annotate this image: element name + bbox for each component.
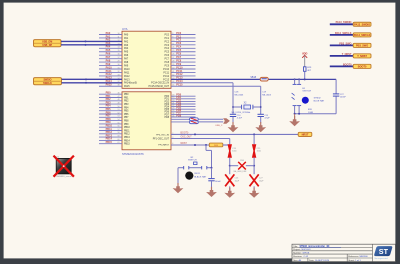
svg-text:57: 57 [118, 129, 120, 131]
svg-text:PA14_SWCLK: PA14_SWCLK [335, 32, 352, 35]
pin PD6 stub + label [164, 109, 195, 114]
pin PC7 stub + label [164, 56, 195, 61]
port T_NRST [353, 54, 371, 58]
port PA14_SWCLK [353, 33, 371, 37]
svg-text:41: 41 [172, 71, 174, 73]
svg-text:PB7: PB7 [124, 117, 129, 119]
svg-text:BLACK HAT: BLACK HAT [194, 175, 207, 178]
resistor R29 4K7 [304, 67, 312, 72]
svg-text:PB3_SWO: PB3_SWO [356, 44, 368, 47]
svg-text:SB18: SB18 [250, 77, 256, 79]
svg-text:PA11: PA11 [124, 71, 130, 74]
pin USB_DM wire [171, 118, 190, 120]
pin PA2 stub + label [106, 39, 129, 44]
svg-text:40: 40 [172, 67, 174, 69]
pin PF0-OSC_IN name [156, 133, 173, 137]
ground B2 left [173, 168, 184, 194]
svg-text:PF1-OSC_OUT: PF1-OSC_OUT [153, 139, 170, 141]
svg-text:46: 46 [172, 115, 174, 117]
wire USB pair to arrow [198, 119, 223, 122]
svg-text:PB11: PB11 [124, 130, 130, 132]
wire NRST to B2 [206, 145, 212, 168]
pin PA12 stub + label [99, 73, 130, 78]
port PB3_SWO [353, 43, 371, 47]
pin PB9 stub + label [99, 121, 129, 126]
pin PC15 stub + label [149, 84, 184, 89]
svg-text:11: 11 [118, 36, 120, 38]
svg-text:PB15: PB15 [106, 141, 113, 144]
wire CN1 to PA2 [61, 40, 122, 42]
resistor R34 (not fitted, X) [230, 160, 254, 173]
ST logo [374, 246, 392, 260]
pin PC10 stub + label [163, 66, 195, 71]
svg-text:U?A: U?A [122, 27, 128, 31]
svg-text:49: 49 [118, 103, 120, 105]
pin PC11 stub + label [163, 70, 195, 75]
pin PA5 stub + label [99, 49, 129, 54]
wire port T_NRST [330, 53, 353, 56]
svg-text:T_NRST: T_NRST [342, 53, 352, 56]
svg-text:PC13: PC13 [163, 79, 170, 81]
svg-text:47: 47 [118, 96, 120, 98]
svg-text:PA3: PA3 [124, 44, 129, 47]
svg-text:PA10: PA10 [124, 68, 130, 71]
red X over U11 [54, 156, 74, 177]
svg-text:USB_C: USB_C [215, 125, 222, 127]
svg-text:PB10: PB10 [124, 127, 130, 129]
pin PA4 stub + label [99, 46, 129, 51]
wire BOOT0 net [171, 133, 298, 136]
svg-text:31: 31 [118, 67, 120, 69]
ground crystal left [228, 122, 239, 132]
pin PA13 stub + label [106, 77, 131, 82]
svg-text:NRST: NRST [302, 134, 309, 137]
svg-text:10-SEPT-2020: 10-SEPT-2020 [315, 260, 330, 262]
svg-text:PB9: PB9 [124, 124, 129, 126]
pin PF1-OSC_OUT wire [153, 137, 230, 145]
capacitor C26 (not fitted, X) [225, 166, 240, 191]
svg-text:PC14-OSC32_IN: PC14-OSC32_IN [151, 83, 169, 85]
wire B1 bottom [294, 109, 337, 115]
harness arrow USB [215, 118, 230, 127]
pin PD4 stub + label [164, 104, 195, 109]
svg-text:50: 50 [118, 106, 120, 108]
ground crystal right [255, 122, 266, 132]
svg-text:COMPASS_mount: COMPASS_mount [54, 175, 72, 178]
svg-text:PD8: PD8 [176, 114, 181, 117]
pin PA8 stub + label [99, 59, 129, 64]
switch B1 contacts [292, 78, 312, 113]
svg-text:Sheet:: Sheet: [348, 259, 355, 262]
svg-text:PC5: PC5 [164, 52, 169, 54]
resistor R30 [209, 143, 229, 147]
pin PB4 stub + label [99, 105, 129, 110]
pin USB_DP wire [171, 121, 190, 123]
pin PC5 stub + label [164, 49, 195, 54]
pin PB6 stub + label [99, 111, 129, 116]
svg-text:PB2: PB2 [124, 101, 129, 103]
port NRST [298, 132, 312, 136]
svg-text:PB13: PB13 [124, 137, 130, 139]
svg-text:PA0: PA0 [124, 33, 129, 36]
pin PB10 stub + label [99, 125, 130, 130]
svg-text:GPIO8: GPIO8 [303, 253, 310, 255]
svg-text:PC15-OSC32_OUT: PC15-OSC32_OUT [149, 86, 170, 88]
pin PB11 stub + label [99, 128, 130, 133]
svg-text:ST: ST [379, 247, 389, 256]
pin PB13 stub + label [99, 134, 130, 139]
button cap B1 blue dot [302, 97, 325, 104]
pin PC3 stub + label [164, 42, 195, 47]
port PA13_SWDIO [353, 22, 371, 26]
pin PC8 stub + label [164, 59, 195, 64]
wire port PA13_SWDIO [330, 21, 353, 24]
svg-text:PB4: PB4 [124, 107, 129, 109]
svg-text:PC0: PC0 [164, 34, 169, 36]
connector CN2 (SWD port) [34, 78, 62, 85]
button cap B2 black dot [185, 172, 207, 180]
pin PA10 stub + label [99, 66, 130, 71]
svg-text:PB8: PB8 [124, 121, 129, 123]
crystal X2 [232, 103, 262, 115]
wire CN1 to PA3 [61, 44, 122, 46]
svg-text:SWITCH: SWITCH [302, 91, 311, 93]
svg-text:PC6: PC6 [164, 55, 169, 57]
svg-text:PB0: PB0 [124, 94, 129, 96]
ground DNF branch 2 [249, 188, 260, 198]
svg-text:10pF: 10pF [235, 180, 240, 182]
svg-text:4.7pF: 4.7pF [265, 118, 271, 120]
svg-text:PA7: PA7 [124, 58, 129, 61]
svg-text:60: 60 [118, 139, 120, 141]
svg-text:28: 28 [172, 61, 174, 63]
pin PA11 stub + label [99, 70, 130, 75]
pin PC12 stub + label [163, 73, 195, 78]
svg-text:NB_0603: NB_0603 [262, 94, 272, 96]
solder C19 label [262, 92, 272, 97]
svg-text:PA13_SWDIO: PA13_SWDIO [354, 23, 370, 26]
svg-text:STM32: STM32 [314, 97, 322, 99]
svg-text:SWCLK: SWCLK [43, 82, 52, 85]
svg-text:PA13: PA13 [124, 78, 130, 81]
svg-text:Title:: Title: [293, 245, 298, 248]
solder C18 label [235, 92, 245, 97]
svg-text:100n: 100n [232, 151, 236, 153]
pin PA14 stub + label [106, 80, 138, 85]
svg-text:51: 51 [118, 109, 120, 111]
wire R29 to net [304, 72, 306, 81]
pin PA0 stub + label [99, 32, 129, 37]
svg-text:32: 32 [118, 71, 120, 73]
svg-text:54: 54 [118, 119, 120, 121]
pin PD2 stub + label [164, 99, 195, 104]
svg-text:PC12: PC12 [163, 76, 170, 78]
svg-text:life.augmented: life.augmented [375, 257, 388, 260]
svg-text:8: 8 [172, 33, 173, 35]
wire port PB3_SWO [330, 42, 353, 45]
svg-text:15: 15 [118, 50, 120, 52]
pin PB1 stub + label [99, 95, 129, 100]
pin PC2 stub + label [164, 39, 195, 44]
svg-text:56: 56 [118, 126, 120, 128]
svg-text:4.7pF: 4.7pF [237, 118, 243, 120]
svg-text:26: 26 [172, 54, 174, 56]
pin PC1 stub + label [164, 35, 195, 40]
svg-text:PB3_SWO: PB3_SWO [339, 42, 351, 45]
svg-text:10: 10 [172, 40, 174, 42]
title block [292, 244, 395, 261]
svg-text:100n: 100n [257, 151, 261, 153]
svg-text:25: 25 [172, 50, 174, 52]
svg-text:PB6: PB6 [124, 114, 129, 116]
svg-text:100nF: 100nF [215, 181, 222, 183]
svg-text:PA12: PA12 [124, 75, 130, 78]
switch B2 contacts [178, 157, 213, 170]
pin PF2-NRST name [158, 143, 173, 147]
svg-text:52: 52 [118, 112, 120, 114]
svg-text:48: 48 [118, 99, 120, 101]
svg-text:SWITCH: SWITCH [188, 160, 197, 162]
IC U11 compass (not fitted) [54, 157, 72, 178]
svg-text:NA_0603_DNF: NA_0603_DNF [234, 170, 248, 173]
pin PA9 stub + label [99, 63, 129, 68]
solder bridge SB18 [250, 77, 268, 81]
capacitor C15 [258, 114, 271, 122]
svg-text:17: 17 [118, 57, 120, 59]
svg-text:C.02: C.02 [304, 256, 309, 258]
svg-text:PB12: PB12 [124, 134, 130, 136]
ground B2 right [206, 187, 217, 197]
capacitor C27 100nF [333, 79, 347, 113]
resistor pair R21/R22 USB [190, 118, 199, 124]
svg-text:1 of 1: 1 of 1 [355, 260, 361, 262]
svg-text:27: 27 [172, 57, 174, 59]
pin PA7 stub + label [99, 56, 129, 61]
wire CN2 to PA13 [62, 78, 123, 80]
svg-text:PC9: PC9 [164, 65, 169, 67]
svg-text:29: 29 [118, 61, 120, 63]
svg-text:NB_0603: NB_0603 [235, 94, 245, 96]
svg-text:SW11: SW11 [194, 173, 201, 175]
pin PB2 stub + label [99, 98, 129, 103]
svg-text:39: 39 [172, 64, 174, 66]
svg-text:BOOT0: BOOT0 [343, 63, 352, 66]
svg-text:Number:: Number: [293, 252, 302, 255]
wire PC15-OSC32_OUT [171, 86, 261, 114]
svg-text:61: 61 [118, 142, 120, 144]
svg-text:PB5: PB5 [124, 111, 129, 113]
svg-text:38: 38 [118, 85, 120, 87]
pin PC0 stub + label [164, 32, 195, 37]
pin PD0 stub + label [164, 94, 195, 99]
svg-text:PD8: PD8 [164, 117, 169, 119]
svg-text:PA6: PA6 [124, 54, 129, 57]
svg-text:14: 14 [118, 47, 120, 49]
pin PC9 stub + label [164, 63, 195, 68]
wire PC14-OSC32_IN [171, 83, 233, 114]
pin PB12 stub + label [99, 131, 130, 136]
svg-text:BOOT0: BOOT0 [358, 65, 367, 68]
svg-text:PF2-NRST: PF2-NRST [158, 145, 169, 147]
svg-text:53: 53 [118, 116, 120, 118]
pin PC6 stub + label [164, 53, 195, 58]
svg-text:STM32C031C6T6: STM32C031C6T6 [122, 152, 144, 156]
pin PB7 stub + label [99, 115, 129, 120]
svg-text:PA9: PA9 [124, 64, 129, 67]
svg-text:16: 16 [118, 54, 120, 56]
IC U1A STM32 port A/C [122, 27, 171, 89]
svg-text:10pF: 10pF [259, 180, 264, 182]
wire NRST net [171, 143, 209, 146]
svg-text:PA15: PA15 [124, 85, 130, 88]
IC U1B STM32 port B/D [122, 92, 171, 156]
svg-text:11: 11 [172, 43, 174, 45]
svg-text:PC11: PC11 [163, 72, 169, 74]
pin PD5 stub + label [164, 107, 195, 112]
svg-text:NRST: NRST [181, 143, 188, 145]
wire port BOOT0 [330, 63, 353, 66]
connector CN1 (USB data port) [34, 40, 62, 47]
svg-text:BOOT0: BOOT0 [181, 133, 190, 135]
svg-text:SWDIO: SWDIO [43, 78, 51, 81]
wire CN2 to PA14 [62, 82, 123, 84]
title block text [293, 245, 368, 262]
svg-text:PC1: PC1 [164, 38, 169, 40]
svg-text:PA1: PA1 [124, 37, 129, 40]
svg-text:PC10: PC10 [163, 69, 170, 71]
svg-text:PA4: PA4 [124, 47, 129, 50]
svg-text:NUCLEO: NUCLEO [302, 249, 311, 251]
pin PD7 stub + label [164, 112, 195, 117]
svg-text:T_NRST: T_NRST [357, 55, 367, 58]
svg-text:Reference:: Reference: [348, 255, 359, 258]
svg-text:24: 24 [172, 47, 174, 49]
svg-text:3: 3 [172, 137, 173, 139]
pin PB15 stub + label [99, 141, 130, 146]
ground DNF branch 1 [224, 188, 235, 198]
svg-text:42: 42 [172, 74, 174, 76]
svg-text:PC3: PC3 [164, 45, 169, 47]
pin PC14 stub + label [151, 80, 183, 85]
svg-text:55: 55 [118, 122, 120, 124]
svg-text:Revision:: Revision: [293, 256, 302, 258]
svg-text:PC4: PC4 [164, 48, 169, 50]
svg-text:PA15: PA15 [106, 84, 113, 87]
pin PA3 stub + label [106, 42, 129, 47]
svg-text:33: 33 [118, 74, 120, 76]
svg-text:MB1360: MB1360 [360, 256, 369, 258]
svg-text:PA14_SWCLK: PA14_SWCLK [354, 34, 371, 37]
svg-text:10: 10 [118, 33, 120, 35]
power flag VDD [302, 51, 308, 66]
pin PA15 stub + label [99, 84, 130, 89]
pin PC4 stub + label [164, 46, 195, 51]
svg-text:PA14(boot0): PA14(boot0) [124, 82, 137, 85]
svg-text:46: 46 [118, 93, 120, 95]
pin PD3 stub + label [164, 101, 195, 106]
svg-text:PC2: PC2 [164, 41, 169, 43]
wire PC13 button net [171, 78, 336, 80]
capacitor C24 (not fitted) [228, 144, 237, 167]
pin PC13 stub + label [163, 77, 183, 82]
pin PD1 stub + label [164, 96, 195, 101]
svg-text:PA5: PA5 [124, 51, 129, 54]
svg-text:PC7: PC7 [164, 59, 169, 61]
pin PB5 stub + label [99, 108, 129, 113]
svg-text:Project:: Project: [293, 248, 301, 251]
svg-text:PB3: PB3 [124, 104, 129, 106]
pin PB8 stub + label [99, 118, 129, 123]
wire port PA14_SWCLK [330, 32, 353, 35]
svg-text:USB_DP: USB_DP [42, 44, 52, 47]
svg-text:PB14: PB14 [124, 140, 130, 142]
pin PB3 stub + label [99, 101, 129, 106]
svg-text:PC8: PC8 [164, 62, 169, 64]
svg-text:OSC_OUT: OSC_OUT [181, 137, 193, 139]
svg-text:PF0-OSC_IN: PF0-OSC_IN [156, 135, 169, 137]
svg-text:PA2: PA2 [124, 40, 129, 43]
capacitor C25 (not fitted) [252, 134, 261, 166]
svg-text:Date:: Date: [309, 259, 315, 262]
capacitor C30 100nF [208, 168, 221, 190]
ground B1 [289, 114, 300, 126]
svg-text:PB1: PB1 [124, 97, 129, 99]
svg-text:100R: 100R [308, 112, 314, 114]
pin PB14 stub + label [99, 138, 130, 143]
pin PB0 stub + label [99, 92, 129, 97]
svg-text:BLUE HAT: BLUE HAT [314, 99, 325, 102]
svg-text:PB15: PB15 [124, 144, 130, 146]
svg-text:30: 30 [118, 64, 120, 66]
svg-text:58: 58 [118, 132, 120, 134]
capacitor C16 [230, 114, 243, 122]
port BOOT0 [353, 64, 371, 68]
svg-text:100nF: 100nF [340, 97, 347, 99]
pin PD8 stub + label [164, 114, 195, 119]
pin PA1 stub + label [99, 35, 129, 40]
svg-text:PA13_SWDIO: PA13_SWDIO [336, 21, 352, 24]
pin PA6 stub + label [99, 53, 129, 58]
svg-text:9: 9 [172, 36, 173, 38]
svg-text:PA8: PA8 [124, 61, 129, 64]
svg-text:VDD: VDD [302, 51, 308, 55]
svg-text:59: 59 [118, 136, 120, 138]
capacitor C27 (not fitted, X) [250, 166, 265, 191]
